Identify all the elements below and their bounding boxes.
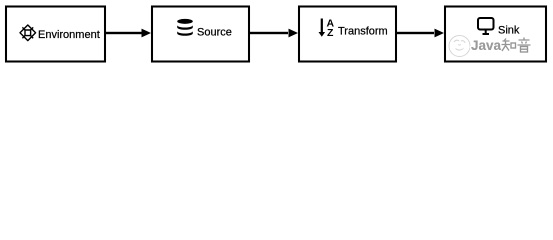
watermark text Java [471, 38, 502, 53]
arrow 2 (Source to Transform) [249, 29, 298, 38]
label Environment [38, 29, 100, 41]
icon monitor (Sink) [478, 18, 494, 34]
box Transform [299, 7, 396, 62]
box Source [152, 7, 249, 62]
watermark mascot logo [449, 36, 470, 57]
icon sort A-Z (Transform) [319, 18, 335, 39]
box Sink [445, 7, 546, 62]
svg-text:Environment: Environment [38, 29, 100, 41]
svg-text:Java: Java [471, 38, 502, 53]
label Transform [338, 26, 388, 38]
box Environment [6, 7, 105, 62]
arrow 1 (Environment to Source) [105, 29, 151, 38]
watermark glyph 知 [502, 39, 516, 52]
watermark glyph 音 [518, 38, 531, 53]
svg-text:Source: Source [197, 26, 232, 38]
svg-text:Z: Z [327, 27, 334, 39]
arrow 3 (Transform to Sink) [396, 29, 444, 38]
icon database (Source) [177, 19, 193, 36]
svg-text:Sink: Sink [498, 25, 520, 37]
label Sink [498, 25, 520, 37]
svg-text:Transform: Transform [338, 26, 388, 38]
label Source [197, 26, 232, 38]
icon cube (Environment) [20, 25, 36, 41]
